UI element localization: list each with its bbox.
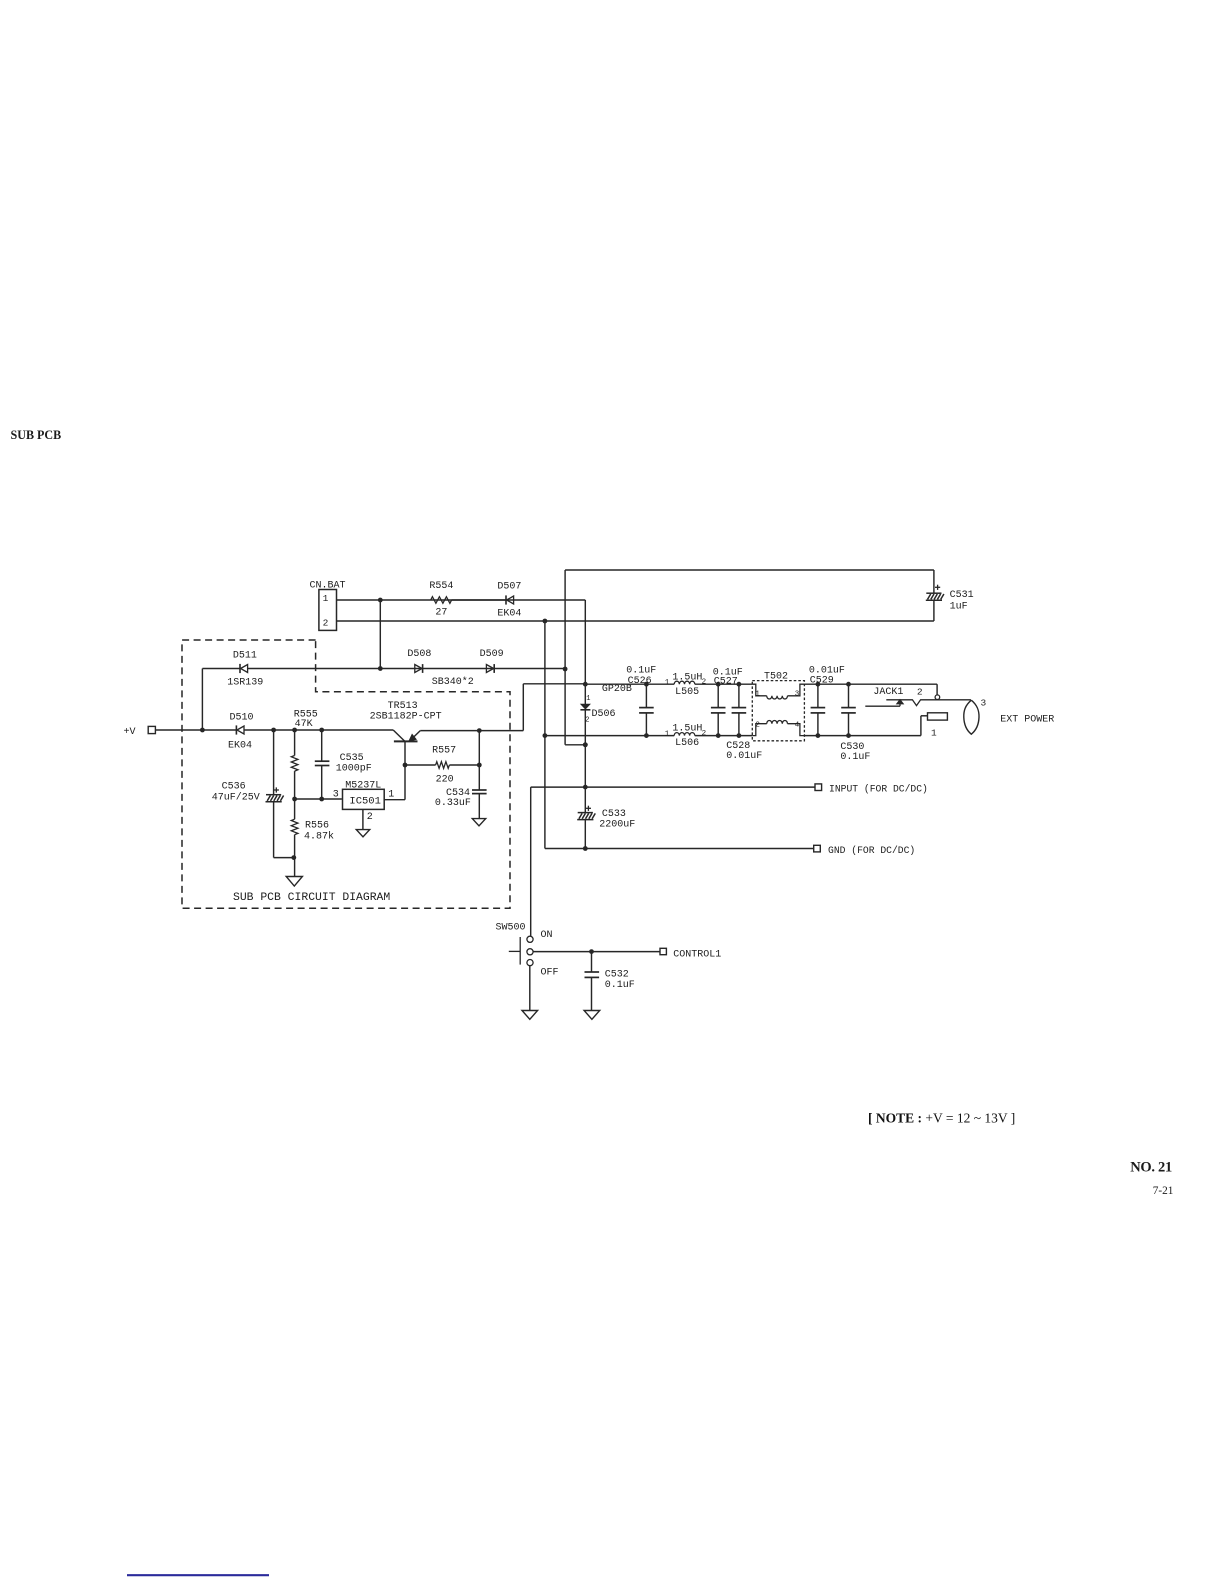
svg-text:C532: C532 bbox=[605, 970, 629, 981]
svg-text:1: 1 bbox=[388, 789, 394, 800]
svg-text:L505: L505 bbox=[675, 687, 699, 698]
svg-text:SUB PCB: SUB PCB bbox=[11, 428, 62, 442]
svg-text:C526: C526 bbox=[628, 676, 652, 687]
svg-text:4.87k: 4.87k bbox=[304, 831, 334, 843]
svg-text:SB340*2: SB340*2 bbox=[432, 676, 474, 688]
svg-text:1.5uH: 1.5uH bbox=[672, 724, 702, 735]
svg-text:27: 27 bbox=[435, 608, 447, 619]
svg-text:1: 1 bbox=[586, 695, 590, 703]
svg-text:D509: D509 bbox=[480, 649, 504, 660]
svg-text:EXT POWER: EXT POWER bbox=[1000, 714, 1054, 725]
svg-text:ON: ON bbox=[541, 930, 553, 941]
svg-text:GND (FOR DC/DC): GND (FOR DC/DC) bbox=[828, 845, 915, 856]
svg-text:CONTROL1: CONTROL1 bbox=[673, 949, 721, 960]
svg-text:1: 1 bbox=[665, 679, 670, 687]
svg-text:1000pF: 1000pF bbox=[336, 763, 372, 774]
svg-text:0.01uF: 0.01uF bbox=[726, 751, 762, 762]
svg-text:1: 1 bbox=[665, 730, 670, 738]
svg-text:2: 2 bbox=[917, 686, 923, 697]
svg-text:D507: D507 bbox=[497, 581, 521, 592]
svg-text:M5237L: M5237L bbox=[345, 781, 381, 792]
svg-text:EK04: EK04 bbox=[228, 740, 252, 751]
svg-text:2: 2 bbox=[323, 617, 329, 628]
svg-text:INPUT (FOR DC/DC): INPUT (FOR DC/DC) bbox=[829, 783, 928, 794]
svg-text:D506: D506 bbox=[592, 709, 616, 720]
svg-text:4: 4 bbox=[795, 721, 800, 729]
svg-text:NO. 21: NO. 21 bbox=[1130, 1160, 1172, 1176]
svg-text:TR513: TR513 bbox=[388, 701, 418, 712]
svg-text:2: 2 bbox=[585, 717, 589, 725]
svg-text:JACK1: JACK1 bbox=[873, 687, 903, 698]
svg-text:2: 2 bbox=[702, 730, 707, 738]
svg-text:1SR139: 1SR139 bbox=[227, 678, 263, 689]
svg-text:2: 2 bbox=[755, 721, 760, 729]
svg-text:SUB PCB CIRCUIT DIAGRAM: SUB PCB CIRCUIT DIAGRAM bbox=[233, 892, 390, 904]
svg-text:1: 1 bbox=[931, 727, 937, 738]
svg-text:0.1uF: 0.1uF bbox=[626, 665, 656, 676]
svg-text:D511: D511 bbox=[233, 651, 257, 662]
svg-text:1.5uH: 1.5uH bbox=[672, 672, 702, 683]
svg-text:1: 1 bbox=[755, 691, 760, 699]
svg-text:3: 3 bbox=[795, 691, 800, 699]
svg-text:1uF: 1uF bbox=[950, 601, 968, 612]
svg-text:SW500: SW500 bbox=[496, 923, 526, 934]
svg-text:47uF/25V: 47uF/25V bbox=[212, 791, 260, 803]
svg-text:0.1uF: 0.1uF bbox=[840, 752, 870, 763]
svg-text:T502: T502 bbox=[764, 672, 788, 683]
svg-text:R554: R554 bbox=[429, 581, 453, 592]
svg-text:[ NOTE : +V = 12 ~ 13V ]: [ NOTE : +V = 12 ~ 13V ] bbox=[868, 1111, 1015, 1126]
svg-text:2SB1182P-CPT: 2SB1182P-CPT bbox=[370, 712, 442, 723]
svg-text:+V: +V bbox=[124, 727, 136, 738]
svg-text:3: 3 bbox=[981, 697, 987, 708]
svg-text:1: 1 bbox=[323, 593, 329, 604]
svg-text:IC501: IC501 bbox=[349, 796, 381, 808]
svg-text:47K: 47K bbox=[295, 719, 313, 730]
svg-text:R556: R556 bbox=[305, 821, 329, 832]
svg-text:0.33uF: 0.33uF bbox=[435, 798, 471, 809]
svg-text:C536: C536 bbox=[222, 781, 246, 792]
svg-text:2: 2 bbox=[367, 812, 373, 823]
svg-text:C534: C534 bbox=[446, 788, 470, 799]
svg-text:OFF: OFF bbox=[541, 968, 559, 979]
svg-text:0.1uF: 0.1uF bbox=[605, 980, 635, 991]
svg-text:R557: R557 bbox=[432, 745, 456, 756]
svg-text:220: 220 bbox=[436, 775, 454, 786]
svg-text:D508: D508 bbox=[407, 649, 431, 660]
svg-text:C533: C533 bbox=[602, 809, 626, 820]
svg-text:3: 3 bbox=[333, 789, 339, 800]
svg-text:C529: C529 bbox=[810, 675, 834, 686]
svg-text:L506: L506 bbox=[675, 738, 699, 749]
svg-text:2: 2 bbox=[702, 678, 707, 686]
svg-text:2200uF: 2200uF bbox=[599, 819, 635, 830]
svg-text:EK04: EK04 bbox=[497, 609, 521, 620]
svg-text:C527: C527 bbox=[714, 676, 738, 687]
svg-text:7-21: 7-21 bbox=[1153, 1185, 1174, 1197]
svg-text:D510: D510 bbox=[230, 713, 254, 724]
svg-text:C531: C531 bbox=[950, 590, 974, 601]
svg-text:CN.BAT: CN.BAT bbox=[310, 580, 346, 591]
